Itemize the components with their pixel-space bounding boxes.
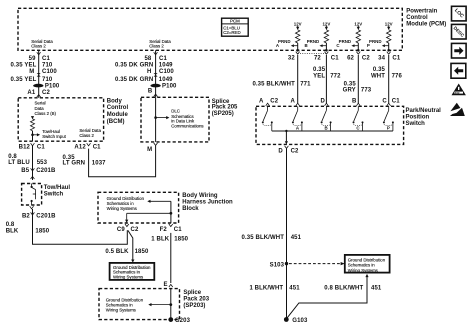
svg-text:LT GRN: LT GRN [63,161,86,167]
svg-text:PCM: PCM [230,19,240,24]
PNP pin B [352,99,360,106]
wire 1049 DK GRN from PCM 58 to SP205 B [155,50,157,97]
svg-text:DLC: DLC [171,109,180,114]
svg-text:Body Wiring: Body Wiring [182,193,218,199]
PCM pin 34 C1 [378,52,401,62]
PNP switch 1 (pin A C2) [262,106,273,131]
net label Serial Data Class 2 inside BCM (right) [79,128,101,138]
svg-text:32: 32 [288,55,295,61]
Tow/Haul switch contacts and blade [31,184,36,206]
svg-text:C2: C2 [291,148,299,154]
svg-text:C1: C1 [37,144,45,150]
toolbar button DESC [452,24,467,39]
svg-text:Block: Block [182,206,199,212]
junction block internal wire from C9 with junction dot [125,212,172,223]
Body Wiring Harness Junction Block outline [98,192,179,223]
wire 710 YEL from PCM 59 to BCM A1 [38,50,40,98]
svg-text:0.35 BLK/WHT: 0.35 BLK/WHT [252,81,295,87]
Park/Neutral Position Switch name label [406,108,442,127]
svg-text:Wiring Systems: Wiring Systems [348,268,379,273]
label 0.35 GRY 773 [343,81,372,93]
svg-text:B12: B12 [19,144,31,150]
svg-text:C2: C2 [42,90,50,96]
label 0.35 YEL 710 (lower) [11,77,53,83]
wire 773 GRY from PCM 62 to PNP switch B [357,55,359,103]
svg-text:Communications: Communications [171,123,204,128]
svg-text:59: 59 [29,56,36,62]
svg-text:0.35: 0.35 [313,67,326,73]
PNP common tap to pin D C2 [285,130,288,145]
svg-text:Class 2 (B): Class 2 (B) [35,111,57,116]
svg-text:1850: 1850 [35,229,49,235]
svg-text:C2: C2 [270,99,278,105]
PNP pin D C2 (bottom) [278,146,299,155]
svg-text:Powertrain: Powertrain [406,9,437,15]
label 0.35 YEL 710 (upper) [11,62,53,68]
svg-text:0.35 DK GRN: 0.35 DK GRN [115,77,153,83]
svg-text:0.35: 0.35 [373,67,386,73]
svg-text:C1: C1 [42,56,50,62]
svg-text:(SP203): (SP203) [183,303,205,309]
label 1 BLK/WHT 451 [249,286,300,292]
toolbar button next (right arrow) [452,43,467,58]
svg-text:1850: 1850 [135,249,149,255]
ESD handling triangle icon [450,103,465,116]
svg-text:12V: 12V [322,21,330,26]
grommet P100 (right) [150,84,177,90]
wire 771 BLK/WHT from PCM 32 to PNP switch A [297,55,299,103]
pull-up resistor PRND P (12V) inside PCM [367,21,393,51]
svg-text:B: B [325,125,328,130]
inline connector C100 pin M (left) [29,69,57,77]
wire 553 LT BLU from BCM B12 to Tow/Haul switch [32,146,34,180]
pull-up resistor PRND A (12V) inside PCM [276,21,302,51]
svg-text:Pack 205: Pack 205 [212,105,238,111]
label 0.8 BLK/WHT 451 [324,286,382,292]
SP203 pin E [163,282,172,288]
label 0.35 BLK/WHT 451 [242,235,302,241]
svg-text:Control: Control [107,105,129,111]
svg-text:Module (PCM): Module (PCM) [406,21,446,27]
svg-text:773: 773 [361,88,372,94]
svg-text:0.8 BLK/WHT: 0.8 BLK/WHT [324,286,363,292]
reference box Ground Distribution Schematics (left) [110,263,155,280]
PNP switch 2 (pin A) with position letter A [292,106,303,131]
PCM connector legend box [222,18,249,36]
wire 1037 LT GRN from BCM A12 to SP205 M [89,146,156,177]
label 0.5 BLK 1850 [105,249,149,255]
svg-text:WHT: WHT [371,73,385,79]
wire 1850 BLK from C9 to ground distribution box (left) [128,230,134,262]
BCM module name label [107,98,129,124]
svg-text:ESD: ESD [455,92,460,94]
svg-text:G203: G203 [175,318,191,324]
BCM pin A1 C2 [27,90,50,97]
svg-text:M: M [29,69,34,75]
svg-text:0.35 BLK/WHT: 0.35 BLK/WHT [242,235,285,241]
svg-text:Splice: Splice [183,290,201,296]
svg-text:B: B [352,99,357,105]
label 0.35 LT GRN 1037 [63,155,107,166]
PCM pin 32 C2 [288,52,300,62]
PCM pin 62 C2 [347,52,370,62]
wire 1850 BLK from F2 to SP203 E [170,233,172,283]
ESD warning triangle icon [452,84,466,96]
Splice Pack 205 name label [212,99,238,117]
svg-text:Serial: Serial [35,101,46,106]
SP205 internal bus wire [155,97,157,142]
svg-text:553: 553 [37,160,48,166]
svg-text:A: A [291,99,296,105]
SP203 reference arrow [148,303,172,306]
svg-text:C1: C1 [392,55,400,61]
svg-text:72: 72 [314,55,321,61]
svg-text:C1: C1 [331,55,339,61]
svg-text:1049: 1049 [159,77,173,83]
svg-text:Position: Position [406,115,430,121]
splice node S103 [270,262,289,269]
net label Serial Data Class 2 (B) inside BCM [35,101,57,117]
dashed reference line from S103 to ground distribution box [289,262,345,265]
Splice Pack 205 outline [141,97,209,142]
Tow/Haul Switch outline [22,184,42,206]
PNP pin D [321,99,329,106]
svg-text:12V: 12V [385,21,393,26]
SP205 pin M (bottom) [147,143,157,153]
label 0.35 WHT 776 [371,67,403,79]
svg-text:C1: C1 [159,56,167,62]
svg-text:451: 451 [371,286,382,292]
svg-text:F2: F2 [160,227,168,233]
svg-text:Module: Module [107,112,129,118]
svg-text:1037: 1037 [92,161,106,167]
svg-text:0.5 BLK: 0.5 BLK [105,249,129,255]
svg-text:BLK: BLK [6,229,19,235]
reference text Ground Distribution Schematics (SP203) [106,298,144,313]
svg-text:B: B [305,43,308,48]
PNP common bus wire [272,130,393,132]
grommet P100 (left) [33,84,60,90]
svg-text:1 BLK: 1 BLK [151,237,169,243]
svg-text:Tow/Haul: Tow/Haul [44,185,71,191]
PNP switch 5 (pin C) with position letter P [383,106,394,131]
svg-text:58: 58 [144,56,151,62]
toolbar button previous (left arrow) [451,63,466,78]
svg-text:Wiring Systems: Wiring Systems [113,274,144,279]
svg-text:Class 2: Class 2 [31,43,46,48]
svg-text:C2: C2 [362,55,370,61]
Tow/Haul Switch pin (bottom) [30,206,34,209]
svg-text:Park/Neutral: Park/Neutral [406,108,442,114]
wire 451 BLK/WHT from ground distribution box to G103 [287,274,369,318]
svg-text:B2: B2 [22,214,30,220]
pull-up resistor PRND C (12V) inside PCM [336,21,362,51]
svg-text:E: E [163,282,167,288]
BCM pin A12 C1 [74,143,101,150]
svg-text:Class 2: Class 2 [149,43,164,48]
svg-text:Switch: Switch [44,192,64,198]
SP203 internal bus wire [170,289,172,320]
svg-text:Switch Input: Switch Input [42,134,66,139]
PNP switch 3 (pin D) with position letter B [321,106,332,131]
PCM pin 59 C1 [29,52,51,62]
toolbar button LOC [452,6,467,21]
net label Serial Data Class 2 (left) [31,39,53,49]
svg-text:C1: C1 [392,99,400,105]
wire 772 YEL from PCM 72 to PNP switch D [325,55,327,103]
svg-text:P100: P100 [162,84,177,90]
PNP pin A [291,99,300,106]
Tow/Haul Switch name label [44,185,71,198]
svg-text:451: 451 [291,235,302,241]
pull-up resistor PRND B (12V) inside PCM [305,21,331,51]
svg-text:H: H [147,69,151,75]
svg-text:B: B [148,88,153,94]
label 0.8 LT BLU 553 [8,154,47,166]
label 0.35 BLK/WHT 771 [252,81,311,87]
svg-text:A1: A1 [27,90,35,96]
svg-text:710: 710 [42,77,53,83]
svg-text:451: 451 [289,286,300,292]
PNP switch 4 (pin B) with position letter C [353,106,364,131]
svg-text:62: 62 [347,55,354,61]
svg-text:34: 34 [378,55,385,61]
BCM module outline [18,98,103,141]
svg-text:P: P [367,43,370,48]
PCM module outline [18,8,402,50]
internal dotted link between PCM pins 32 and 72 [298,52,327,54]
svg-text:Switch: Switch [406,121,426,127]
svg-text:C9: C9 [117,227,125,233]
connector B2 C201B [22,212,56,219]
svg-text:1 BLK/WHT: 1 BLK/WHT [249,286,283,292]
connector B5 C201B [21,168,56,174]
junction block internal wire from F2 with reference arrow [147,200,171,223]
SP205 pin B (top) [148,88,158,96]
Tow/Haul Switch Input internal tap [31,129,66,139]
inline connector C100 pin H (right) [147,69,174,77]
junction block pin C9 C2 [117,224,139,233]
wire 776 WHT from PCM 34 to PNP switch C [388,55,390,103]
label 1 BLK 1850 [151,237,188,243]
svg-text:771: 771 [300,81,311,87]
svg-text:12V: 12V [294,21,302,26]
svg-text:P: P [387,125,390,130]
svg-text:A: A [259,99,264,105]
svg-text:PRND: PRND [339,39,351,44]
ground G103 [284,317,308,324]
svg-text:0.8: 0.8 [6,222,15,228]
svg-text:C100: C100 [159,69,174,75]
svg-text:Body: Body [107,98,123,104]
svg-text:0.35: 0.35 [344,81,357,87]
svg-text:710: 710 [42,62,53,68]
reference text DLC Schematics in Data Link Communications [171,109,204,129]
ground G203 [168,317,190,324]
svg-text:0.35 YEL: 0.35 YEL [11,62,37,68]
label 0.35 YEL 772 [313,67,341,79]
svg-text:0.8: 0.8 [8,154,17,160]
SP205 DLC reference arrow [154,116,169,119]
svg-text:772: 772 [330,73,341,79]
Splice Pack 203 name label [183,290,209,309]
svg-text:LT BLU: LT BLU [8,160,30,166]
svg-text:776: 776 [392,73,403,79]
svg-text:1850: 1850 [174,237,188,243]
label 0.8 BLK 1850 [6,222,50,235]
svg-text:M: M [147,147,152,153]
svg-text:C201B: C201B [36,168,56,174]
svg-text:A12: A12 [74,144,86,150]
wire 1850 BLK from B2 to junction block C9 [33,209,128,244]
svg-text:Control: Control [406,15,428,21]
junction block pin F2 C1 [160,224,183,233]
Body Wiring Harness Junction Block name label [182,193,233,212]
svg-text:(SP205): (SP205) [212,111,234,117]
BCM pin B12 C1 [19,143,46,150]
svg-text:12V: 12V [354,21,362,26]
svg-text:Class 2: Class 2 [79,133,94,138]
svg-text:0.35 DK GRN: 0.35 DK GRN [115,62,153,68]
reference text Ground Distribution Schematics (junction block) [107,196,145,211]
svg-text:GRY: GRY [343,88,356,94]
resistor inside BCM [31,116,35,141]
svg-text:D: D [278,148,283,154]
svg-text:Pack 203: Pack 203 [183,297,209,303]
svg-text:C1: C1 [93,144,101,150]
Tow/Haul Switch pin (top) [31,176,35,179]
svg-text:B5: B5 [21,168,29,174]
wire 451 BLK/WHT from S103 to G103 [286,265,288,319]
label 0.35 DK GRN 1049 (lower) [115,77,173,83]
svg-text:D: D [321,99,326,105]
svg-text:P100: P100 [45,84,60,90]
PNP pin A C2 (leftmost) [259,99,279,106]
svg-text:C100: C100 [42,69,57,75]
svg-text:Wiring Systems: Wiring Systems [106,308,137,313]
svg-text:YEL: YEL [313,73,325,79]
svg-text:PRND: PRND [307,39,319,44]
svg-text:G103: G103 [292,318,308,324]
PCM pin 72 C1 [314,52,339,62]
svg-text:(BCM): (BCM) [107,119,125,125]
svg-text:Wiring Systems: Wiring Systems [107,206,138,211]
reference box Ground Distribution Schematics (right) [345,255,390,273]
Splice Pack 203 outline [99,289,180,320]
svg-text:1049: 1049 [159,62,173,68]
PNP pin C C1 [382,99,400,106]
svg-text:PRND: PRND [369,39,381,44]
svg-text:C1: C1 [174,227,182,233]
svg-text:Harness Junction: Harness Junction [182,200,233,206]
PCM pin 58 C1 [144,52,167,62]
svg-text:C2=RED: C2=RED [223,30,240,35]
net label Serial Data Class 2 (right) [149,39,171,49]
svg-text:0.35 YEL: 0.35 YEL [11,77,37,83]
PCM module name label [406,9,446,28]
svg-text:PRND: PRND [278,39,290,44]
svg-text:C201B: C201B [36,214,56,220]
svg-text:C: C [382,99,387,105]
wire 451 BLK/WHT from PNP D C2 down to S103 [286,149,288,262]
svg-text:S103: S103 [270,263,285,269]
Park/Neutral Position Switch outline [256,106,404,144]
svg-text:C2: C2 [131,227,139,233]
svg-text:Schematics in: Schematics in [348,263,376,268]
label 0.35 DK GRN 1049 (upper) [115,62,173,68]
